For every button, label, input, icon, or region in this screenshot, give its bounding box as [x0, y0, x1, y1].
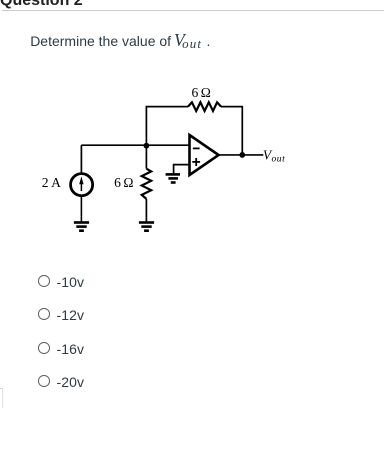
- svg-text:6 Ω: 6 Ω: [114, 175, 133, 190]
- svg-text:6 Ω: 6 Ω: [192, 85, 211, 100]
- svg-text:Vout: Vout: [263, 147, 285, 164]
- svg-text:2 A: 2 A: [42, 175, 61, 190]
